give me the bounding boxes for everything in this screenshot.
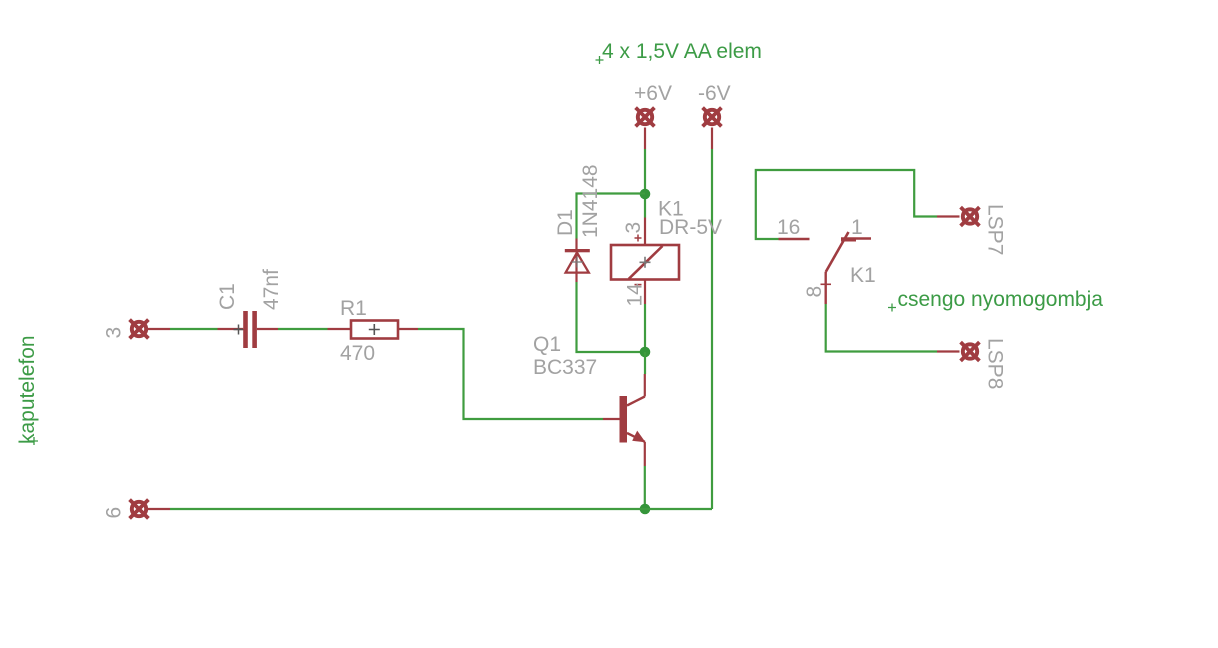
svg-text:LSP7: LSP7 [984, 204, 1007, 255]
resistor R1 name [340, 297, 367, 320]
transistor Q1 value BC337 [533, 356, 597, 379]
pad LSP7 [961, 207, 980, 226]
junction node J1 [640, 189, 651, 200]
label csengo nyomogombja [888, 288, 1103, 312]
svg-text:D1: D1 [554, 209, 577, 236]
svg-text:6: 6 [103, 507, 126, 519]
svg-text:3: 3 [103, 327, 126, 339]
resistor R1 value 470 [340, 342, 375, 365]
svg-text:LSP8: LSP8 [984, 338, 1007, 389]
svg-text:csengo nyomogombja: csengo nyomogombja [898, 288, 1104, 311]
resistor R1 left pin [328, 328, 352, 330]
relay pin 3 origin cross [635, 235, 642, 242]
LSP7 label [984, 204, 1007, 255]
pin stub -6V [711, 128, 713, 150]
switch pin 16 label [777, 216, 800, 239]
transistor Q1 name [533, 333, 561, 356]
supply +6V label [634, 82, 672, 105]
wire emitter to bottom rail [644, 466, 646, 509]
wire LSP7 to switch pin16 [756, 170, 937, 239]
relay pin 3 label [622, 222, 645, 234]
svg-text:470: 470 [340, 342, 375, 365]
wire junction to diode top [577, 194, 646, 239]
label kaputelefon [16, 335, 39, 445]
switch pin 1 [841, 237, 871, 239]
wire J2 to collector [644, 352, 646, 374]
diode D1 value 1N4148 [579, 164, 602, 238]
wire +6V down to relay [644, 149, 646, 218]
switch pin 8 origin tick [821, 283, 832, 285]
relay K1 value DR-5V [659, 216, 722, 239]
junction node J3 [640, 504, 651, 515]
wire C1 to R1 [278, 328, 328, 330]
svg-text:R1: R1 [340, 297, 367, 320]
wire relay pin14 to junction J2 [644, 304, 646, 352]
resistor R1 body [351, 321, 398, 339]
supply -6V label [698, 82, 731, 105]
pin 6 stub [146, 508, 170, 510]
svg-text:K1: K1 [850, 264, 876, 287]
relay pin 14 [644, 281, 646, 305]
pad LSP8 [961, 342, 980, 361]
resistor R1 origin cross [369, 324, 380, 335]
relay pin 14 label [624, 283, 647, 307]
diode D1 symbol [565, 249, 590, 282]
relay K1 name [658, 198, 684, 221]
svg-text:14: 14 [624, 283, 647, 307]
svg-text:8: 8 [803, 286, 826, 298]
LSP7 stub [937, 215, 960, 217]
switch pin 8 [825, 272, 827, 304]
relay K1 origin cross [640, 257, 651, 268]
svg-text:-6V: -6V [698, 82, 731, 105]
pin stub +6V [644, 128, 646, 150]
junction node J2 [640, 347, 651, 358]
svg-text:C1: C1 [216, 283, 239, 310]
switch pin 16 [779, 238, 810, 240]
switch K1 name [850, 264, 876, 287]
wire -6V down to bottom rail [711, 149, 713, 509]
LSP8 stub [937, 350, 960, 352]
pin 3 stub [146, 328, 170, 330]
switch K1 arm [826, 232, 849, 272]
diode D1 cathode pin [575, 239, 577, 250]
svg-text:1: 1 [851, 216, 863, 239]
svg-text:3: 3 [622, 222, 645, 234]
switch pin 8 label [803, 286, 826, 298]
resistor R1 right pin [398, 328, 418, 330]
pin 6 label (kaputelefon) [103, 507, 126, 519]
relay pin 3 [644, 218, 646, 245]
pad pin 6 [130, 500, 149, 519]
capacitor C1 name [216, 283, 239, 310]
svg-text:DR-5V: DR-5V [659, 216, 722, 239]
switch pin 1 contact tick [841, 238, 856, 241]
capacitor C1 left pin [218, 328, 244, 330]
transistor Q1 symbol [603, 374, 646, 466]
relay pin 14 origin tick [635, 284, 642, 286]
label: battery text [596, 40, 762, 64]
switch pin 1 label [851, 216, 863, 239]
supply pad +6V [636, 108, 655, 127]
capacitor C1 value 47nf [260, 269, 283, 310]
pad pin 3 [130, 320, 149, 339]
svg-text:Q1: Q1 [533, 333, 561, 356]
LSP8 label [984, 338, 1007, 389]
svg-text:BC337: BC337 [533, 356, 597, 379]
diode D1 name label [554, 209, 577, 236]
pin 3 label (kaputelefon) [103, 327, 126, 339]
svg-text:4 x 1,5V AA elem: 4 x 1,5V AA elem [602, 40, 762, 63]
svg-text:47nf: 47nf [260, 269, 283, 310]
svg-text:kaputelefon: kaputelefon [16, 335, 39, 444]
capacitor C1 plates [243, 311, 257, 348]
diode D1 anode wire to junction J2 [577, 282, 646, 352]
wire pad3 to C1 [170, 328, 218, 330]
supply pad -6V [703, 108, 722, 127]
svg-text:+6V: +6V [634, 82, 672, 105]
wire bottom rail [170, 508, 712, 510]
svg-text:1N4148: 1N4148 [579, 164, 602, 238]
svg-text:16: 16 [777, 216, 800, 239]
wire pin8 to LSP8 [826, 304, 937, 352]
capacitor C1 origin cross [234, 325, 244, 335]
wire R1 to base [418, 329, 603, 419]
relay K1 coil [611, 245, 679, 280]
capacitor C1 right pin [257, 328, 278, 330]
